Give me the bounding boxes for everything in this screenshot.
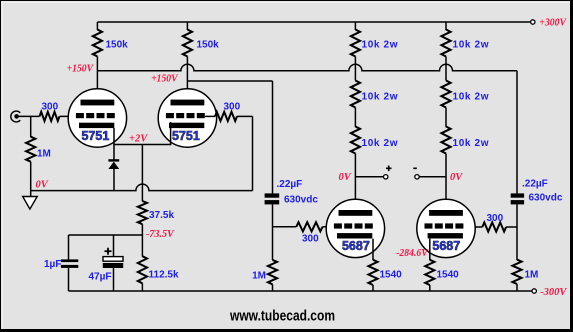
svg-text:1540: 1540: [437, 270, 460, 281]
svg-text:300: 300: [302, 234, 319, 245]
svg-text:10k 2w: 10k 2w: [453, 40, 489, 51]
svg-text:5751: 5751: [81, 129, 109, 143]
svg-text:1M: 1M: [252, 271, 266, 282]
svg-text:300: 300: [487, 213, 504, 224]
svg-text:-73.5V: -73.5V: [146, 228, 175, 240]
svg-text:5751: 5751: [172, 129, 200, 143]
svg-text:.22µF: .22µF: [277, 179, 303, 190]
svg-text:+150V: +150V: [151, 73, 179, 85]
svg-text:630vdc: 630vdc: [284, 195, 318, 206]
svg-text:150k: 150k: [197, 40, 220, 51]
svg-text:0V: 0V: [339, 172, 352, 183]
svg-text:10k 2w: 10k 2w: [362, 138, 398, 149]
svg-text:112.5k: 112.5k: [149, 270, 179, 281]
svg-text:5687: 5687: [342, 239, 370, 253]
svg-text:10k 2w: 10k 2w: [453, 92, 489, 103]
svg-text:www.tubecad.com: www.tubecad.com: [229, 308, 335, 325]
svg-text:1M: 1M: [525, 270, 539, 281]
svg-text:47µF: 47µF: [89, 272, 112, 283]
svg-text:.22µF: .22µF: [522, 179, 548, 190]
svg-text:10k 2w: 10k 2w: [362, 40, 398, 51]
svg-text:-284.6V: -284.6V: [396, 247, 429, 259]
svg-text:37.5k: 37.5k: [149, 210, 174, 221]
svg-text:0V: 0V: [450, 172, 463, 183]
svg-text:300: 300: [42, 102, 59, 113]
svg-text:1µF: 1µF: [44, 259, 61, 270]
svg-text:0V: 0V: [36, 180, 49, 191]
svg-text:-300V: -300V: [540, 286, 568, 298]
svg-text:+300V: +300V: [539, 17, 567, 29]
svg-text:+2V: +2V: [129, 134, 148, 145]
svg-text:1M: 1M: [37, 149, 51, 160]
svg-text:150k: 150k: [106, 40, 129, 51]
svg-text:10k 2w: 10k 2w: [362, 92, 398, 103]
svg-text:+150V: +150V: [67, 63, 95, 75]
svg-text:10k 2w: 10k 2w: [453, 138, 489, 149]
svg-text:1540: 1540: [380, 270, 403, 281]
svg-text:5687: 5687: [432, 239, 460, 253]
svg-text:630vdc: 630vdc: [529, 193, 563, 204]
svg-text:300: 300: [224, 102, 241, 113]
